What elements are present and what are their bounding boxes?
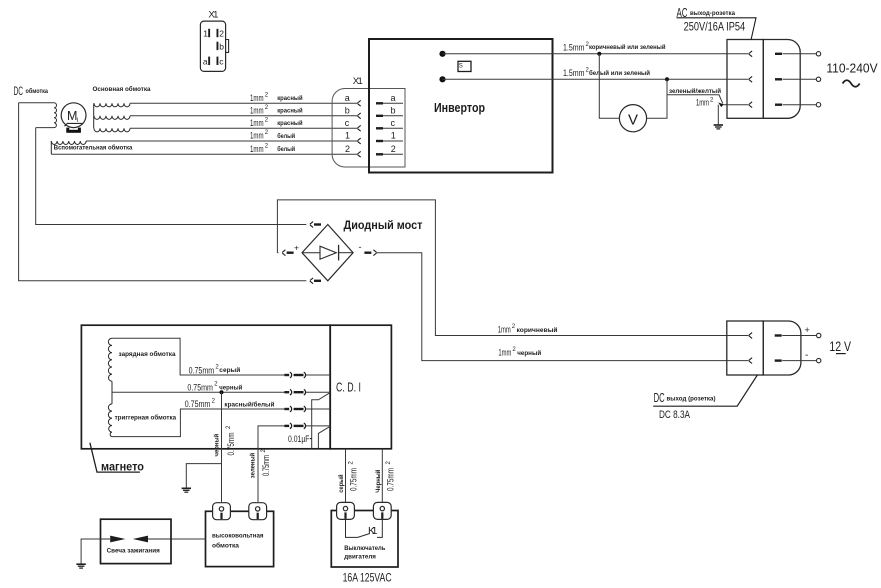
magneto box [81,325,330,449]
X1 left pin labels and forks [345,93,361,157]
svg-text:b: b [391,106,396,116]
HV coil terminal 2 [249,503,267,520]
wire a [130,102,357,104]
svg-text:зеленый/желтый: зеленый/желтый [669,87,721,95]
svg-text:триггерная обмотка: триггерная обмотка [115,414,177,422]
wire 2 [51,153,357,155]
wire minus to DC socket [377,253,727,361]
svg-text:DC: DC [654,391,665,405]
svg-text:Основная обмотка: Основная обмотка [93,85,151,93]
svg-text:2: 2 [219,29,224,39]
wire left DC bus down to bridge bottom input [19,103,307,281]
high voltage coil box [206,511,274,566]
svg-text:Диодный мост: Диодный мост [344,220,423,232]
svg-text:1.5mm: 1.5mm [563,68,585,79]
svg-text:110-240V: 110-240V [826,62,878,76]
capacitor 0.01uF [288,434,312,445]
motor M1 [61,103,86,133]
junction on AC line 2 [665,77,669,81]
X1 right pins [376,93,403,156]
svg-text:1mm: 1mm [250,144,264,155]
bridge bottom input connector [310,278,321,284]
wire green row [258,423,330,449]
label 1.5mm2 brown/green [563,42,666,54]
svg-text:1mm: 1mm [250,131,264,142]
wire 1 [86,140,357,142]
svg-text:1mm: 1mm [696,98,709,109]
svg-text:0.75mm: 0.75mm [386,468,397,491]
svg-text:красный: красный [277,94,302,102]
inverter box [369,39,553,173]
inverter internal component box [458,61,471,71]
vertical label 0.75mm2 black2 [386,461,397,492]
svg-text:12 V: 12 V [829,339,851,354]
AC socket pin row 3 [727,102,821,108]
CDI entry bend upper [312,393,331,449]
svg-text:1.5mm: 1.5mm [563,42,585,53]
svg-text:1: 1 [203,29,208,39]
label 110-240V [826,62,878,87]
svg-text:серый: серый [219,366,240,374]
diode bridge D1 [302,225,353,281]
vertical label 0.75mm2 grey [349,461,360,492]
svg-text:a: a [203,56,208,66]
svg-text:высоковольтная: высоковольтная [212,533,264,540]
svg-text:белый: белый [277,145,295,153]
svg-text:0.75mm: 0.75mm [261,455,272,476]
svg-text:V: V [628,112,638,129]
svg-text:выход-розетка: выход-розетка [690,10,735,17]
svg-text:c: c [391,118,396,128]
svg-text:1: 1 [391,131,396,141]
svg-text:16A 125VAC: 16A 125VAC [343,570,392,584]
svg-text:Свеча зажигания: Свеча зажигания [107,548,160,555]
inverter AC output node 1 [439,51,445,57]
connector X1 capsule [332,76,405,167]
vertical label 0.75mm2 black [226,425,237,456]
CDI entry bend lower [318,426,330,449]
svg-text:двигателя: двигателя [344,554,376,561]
wire size labels 1mm2 rows [250,93,303,155]
svg-text:0.75mm: 0.75mm [185,399,211,410]
DC socket pin minus [727,350,821,364]
svg-text:1mm: 1mm [498,347,511,358]
label 1mm2 черный [498,347,541,358]
wire red/white 0.75mm2 [112,398,330,436]
inverter AC output node 2 [439,76,445,82]
bridge minus output connector [359,242,377,256]
wire green/yellow ground [667,87,727,109]
spark plug box [101,519,172,563]
svg-text:черный: черный [219,383,242,391]
svg-text:b: b [219,42,224,52]
svg-text:черный: черный [212,434,220,457]
svg-text:красный: красный [277,107,302,115]
svg-text:1: 1 [345,131,350,141]
svg-text:S: S [459,64,463,70]
wire HV coil to spark plug [171,538,206,540]
wire spark plug to ground [81,539,100,564]
wire AC line 2 [443,78,728,80]
ground branch from black wire [182,464,222,493]
svg-text:коричневый: коричневый [517,326,558,334]
connector X1 top symbol [200,10,228,72]
svg-text:красный/белый: красный/белый [224,401,274,409]
svg-text:c: c [219,56,224,66]
bridge plus output connector [277,242,299,255]
svg-text:250V/16A IP54: 250V/16A IP54 [684,22,746,34]
svg-text:a: a [345,93,350,103]
svg-text:b: b [345,106,350,116]
wire DC winding top to left bus [19,102,54,104]
main winding coil c [94,128,130,132]
AC socket pin row 2 [727,76,821,82]
AC socket pin row 1 [727,51,821,57]
wire b [130,115,357,117]
wire grey to switch [345,449,347,502]
svg-text:1mm: 1mm [250,118,264,129]
wire grey 0.75mm2 [112,338,330,378]
svg-text:X1: X1 [353,76,363,87]
svg-text:0.75mm: 0.75mm [187,382,213,393]
svg-text:1mm: 1mm [498,324,511,335]
voltmeter V [599,54,667,132]
charging winding coil [108,338,175,381]
svg-text:DC: DC [14,84,24,98]
svg-text:0.75mm: 0.75mm [349,468,360,491]
wire AC line 1 [443,53,728,55]
switch K1 contact [346,520,383,538]
aux winding left link [50,141,52,154]
svg-text:выход (розетка): выход (розетка) [667,396,716,403]
label 1mm2 коричневый [498,324,558,335]
svg-text:серый: серый [337,474,345,492]
svg-text:магнето: магнето [101,461,144,473]
wire c [130,127,357,129]
engine switch box [331,511,398,568]
svg-text:-: - [359,242,362,252]
svg-text:1mm: 1mm [250,93,264,104]
svg-text:белый: белый [277,132,295,140]
label DC выход розетка [653,375,757,421]
svg-text:обмотка: обмотка [212,542,239,550]
svg-text:Черный: Черный [374,470,382,493]
svg-text:красный: красный [277,119,302,127]
svg-text:белый или зеленый: белый или зеленый [589,69,650,77]
svg-text:Вспомогательная обмотка: Вспомогательная обмотка [54,144,133,152]
vertical label 0.75mm2 green [261,449,272,477]
svg-text:+: + [805,325,810,335]
ground at spark plug [76,564,85,568]
svg-text:черный: черный [517,349,541,357]
svg-text:-: - [805,350,808,361]
svg-text:зеленый: зеленый [249,453,257,478]
bridge top input connector [310,222,321,228]
wire black down to HV coil [221,392,223,502]
svg-text:0.75mm: 0.75mm [189,365,215,376]
main winding star point [93,103,95,128]
wire second DC bus down to bridge top input [36,128,307,225]
wire plus loop to DC socket [277,200,727,336]
wire green down to HV coil [257,449,259,502]
svg-text:0.01µF: 0.01µF [288,434,310,445]
label AC выход-розетка [677,6,757,40]
svg-text:C. D. I: C. D. I [336,379,361,394]
label 1.5mm2 white/green [563,68,650,80]
DC winding coil [54,103,57,128]
wire DC winding bottom to second bus [36,127,54,129]
svg-text:+: + [294,242,299,252]
auxiliary winding coil [51,141,86,145]
svg-text:коричневый или зеленый: коричневый или зеленый [589,43,666,51]
CDI box [330,325,391,449]
DC socket body [727,321,801,375]
svg-text:2: 2 [391,144,396,154]
svg-text:DC 8.3A: DC 8.3A [659,409,690,421]
svg-text:зарядная обмотка: зарядная обмотка [119,350,176,358]
AC socket body [727,40,800,119]
ground at AC socket [714,105,723,129]
svg-text:1mm: 1mm [250,105,264,116]
DC socket pin plus [727,325,821,338]
junction on AC line 1 [597,52,601,56]
svg-text:X1: X1 [208,10,218,21]
label DC обмотка [14,84,49,98]
main winding coil b [94,116,130,120]
svg-text:Выключатель: Выключатель [344,545,385,552]
svg-text:0.75mm: 0.75mm [226,432,237,455]
main winding coil a [94,103,130,107]
switch terminal 1 [337,502,355,519]
wire black 0.75mm2 [112,382,330,396]
svg-text:обмотка: обмотка [26,87,49,95]
trigger winding coil [108,404,176,437]
svg-text:c: c [345,118,350,128]
link between coils [111,381,113,404]
label 12V [829,339,851,354]
switch terminal 2 [373,502,391,519]
svg-text:Инвертор: Инвертор [434,101,485,115]
svg-text:K1: K1 [368,525,378,537]
label магнето [90,443,144,474]
HV coil terminal 1 [213,503,231,520]
svg-text:a: a [391,93,396,103]
wire black to switch [381,449,383,502]
svg-text:2: 2 [345,144,350,154]
